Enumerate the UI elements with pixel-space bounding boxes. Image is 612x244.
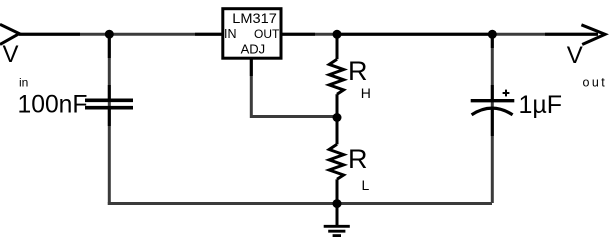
svg-text:out: out xyxy=(583,76,608,90)
svg-text:V: V xyxy=(3,41,19,68)
svg-text:OUT: OUT xyxy=(254,27,280,41)
svg-text:IN: IN xyxy=(224,27,237,41)
svg-text:ADJ: ADJ xyxy=(241,42,266,57)
svg-text:in: in xyxy=(19,76,28,90)
svg-text:L: L xyxy=(362,177,370,193)
svg-text:R: R xyxy=(348,56,368,86)
svg-text:1µF: 1µF xyxy=(519,91,563,119)
svg-text:LM317: LM317 xyxy=(232,10,277,26)
svg-text:H: H xyxy=(361,85,371,101)
svg-text:100nF: 100nF xyxy=(18,91,88,119)
svg-text:R: R xyxy=(348,144,368,174)
svg-text:V: V xyxy=(567,42,583,69)
